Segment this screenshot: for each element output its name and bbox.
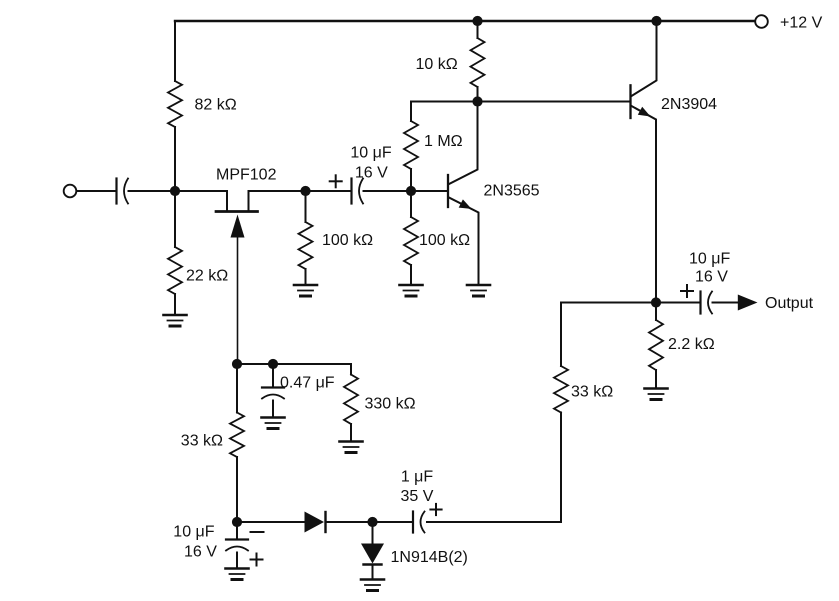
node output (emitter) xyxy=(651,297,661,307)
ground (below 0.47 uF) xyxy=(262,416,285,419)
node detector xyxy=(367,517,377,527)
wire 0.47uF node to R 330k xyxy=(273,363,351,365)
jfet MPF102 drain leg xyxy=(226,191,228,210)
wire rail down-left to R 82k xyxy=(174,21,176,81)
ground (below 10 uF AGC) xyxy=(226,567,249,570)
resistor 33 k&#937; (AGC) xyxy=(230,413,244,458)
plus sign (C 10uF coupling) xyxy=(330,180,342,182)
svg-text:10 kΩ: 10 kΩ xyxy=(416,56,458,73)
+12 V terminal xyxy=(755,15,768,28)
wire D2 to ground xyxy=(372,566,374,580)
ground (below source 100 k) xyxy=(294,284,317,287)
transistor 2N3565 collector xyxy=(449,102,478,185)
svg-text:1 μF: 1 μF xyxy=(401,468,434,485)
wire source node to C 10uF xyxy=(306,190,351,192)
wire bottom row C 1uF to feedback col xyxy=(427,521,561,523)
wire +12V supply rail xyxy=(175,20,755,22)
wire R 22k to ground xyxy=(174,294,176,315)
wire feedback col down to R 33k xyxy=(560,303,562,367)
ground (below 22 k) xyxy=(164,314,187,317)
svg-text:35 V: 35 V xyxy=(401,488,434,505)
transistor 2N3565 bar xyxy=(447,175,449,207)
capacitor 0.47 uF xyxy=(262,386,284,388)
wire R 2.2k to ground xyxy=(655,370,657,389)
svg-text:16 V: 16 V xyxy=(184,543,217,560)
resistor 33 k&#937; (feedback) xyxy=(554,366,568,413)
ground (below D2) xyxy=(361,578,384,581)
wire source node to R 100k xyxy=(305,191,307,222)
transistor 2N3565 emitter arrow xyxy=(459,199,472,209)
output arrow xyxy=(738,295,758,311)
transistor 2N3904 emitter arrow xyxy=(638,107,651,117)
wire input node to R 22k xyxy=(174,191,176,247)
transistor 2N3904 collector xyxy=(632,21,657,96)
wire R 100k base to ground xyxy=(410,265,412,285)
wire gate stem down to AGC node xyxy=(237,238,239,364)
svg-text:Output: Output xyxy=(765,295,814,312)
capacitor 10 uF 16 V (interstage) xyxy=(350,179,352,204)
svg-text:MPF102: MPF102 xyxy=(216,167,277,184)
diode D1 1N914B (series) xyxy=(305,512,325,533)
wire output node to feedback col xyxy=(561,302,656,304)
node 0.47 uF xyxy=(268,359,278,369)
svg-text:22 kΩ: 22 kΩ xyxy=(186,268,228,285)
wire 0.47uF node down xyxy=(272,364,274,387)
wire bottom node to C 10uF xyxy=(236,522,238,539)
svg-text:33 kΩ: 33 kΩ xyxy=(571,384,613,401)
svg-text:100 kΩ: 100 kΩ xyxy=(419,232,470,249)
ground (2N3565 emitter) xyxy=(467,284,490,287)
wire C 10uF to base node xyxy=(364,190,412,192)
jfet MPF102 source leg xyxy=(248,191,250,210)
wire collector node to 2N3904 base xyxy=(478,101,631,103)
ground (below 330 k) xyxy=(340,440,363,443)
resistor 1 M&#937; xyxy=(404,121,418,169)
wire R 82k to input node xyxy=(174,127,176,191)
wire base node up to R 1M xyxy=(410,169,412,191)
resistor 22 k&#937; xyxy=(168,247,182,294)
svg-text:16 V: 16 V xyxy=(695,269,728,286)
transistor 2N3904 bar xyxy=(629,85,631,118)
plus sign (C-out) xyxy=(681,290,693,292)
resistor 10 k&#937; xyxy=(471,38,485,87)
node JFET source xyxy=(300,186,310,196)
wire input node to JFET drain xyxy=(175,190,227,192)
wire R 33k feedback down to bottom row xyxy=(560,413,562,523)
node 2N3565 base xyxy=(406,186,416,196)
wire AGC node to 0.47uF node xyxy=(237,363,273,365)
resistor 100 k&#937; (base) xyxy=(404,217,418,265)
minus sign (C 10uF bottom) xyxy=(251,531,264,533)
svg-text:2N3904: 2N3904 xyxy=(661,96,717,113)
node bottom-left (10 uF) xyxy=(232,517,242,527)
wire JFET source to source node xyxy=(249,190,306,192)
wire input terminal to C-in xyxy=(77,190,117,192)
transistor 2N3565 emitter xyxy=(449,198,479,286)
wire R 33k AGC to bottom node xyxy=(236,457,238,522)
ground (below base 100 k) xyxy=(400,284,423,287)
resistor 330 k&#937; xyxy=(344,375,358,425)
resistor 100 k&#937; (source) xyxy=(299,222,313,269)
node rail / 10k xyxy=(472,16,482,26)
wire D1 to detector node xyxy=(327,521,373,523)
wire R 10k to collector node xyxy=(477,87,479,102)
wire rail node to R 10k xyxy=(477,21,479,38)
svg-text:330 kΩ: 330 kΩ xyxy=(365,396,416,413)
transistor 2N3904 emitter xyxy=(632,106,657,303)
jfet MPF102 channel bar xyxy=(216,210,258,213)
svg-text:10 μF: 10 μF xyxy=(350,145,391,162)
svg-text:10 μF: 10 μF xyxy=(689,251,730,268)
wire output node to C-out xyxy=(656,302,700,304)
wire C 0.47uF to ground xyxy=(272,401,274,418)
wire detector node to D2 xyxy=(372,522,374,544)
svg-text:2.2 kΩ: 2.2 kΩ xyxy=(668,336,715,353)
svg-text:10 μF: 10 μF xyxy=(173,524,214,541)
svg-text:0.47 μF: 0.47 μF xyxy=(280,375,335,392)
capacitor 10 uF 16 V (output) xyxy=(699,292,701,314)
wire C 10uF to ground xyxy=(236,553,238,569)
wire bottom node to D1 xyxy=(237,521,304,523)
svg-text:+12 V: +12 V xyxy=(780,14,823,31)
svg-text:1N914B(2): 1N914B(2) xyxy=(391,549,468,566)
wire C-out to output arrow xyxy=(713,302,741,304)
capacitor 10 uF 16 V (AGC filter) xyxy=(226,538,248,540)
resistor 82 k&#937; xyxy=(168,81,182,127)
wire AGC node to R 33k left xyxy=(236,364,238,413)
diode D2 1N914B (shunt) xyxy=(361,544,384,564)
wire output node to R 2.2k xyxy=(655,303,657,321)
wire R 100k source to ground xyxy=(305,269,307,285)
svg-text:2N3565: 2N3565 xyxy=(484,183,540,200)
plus sign (C 1uF) xyxy=(430,509,441,511)
capacitor 1 uF 35 V xyxy=(412,512,414,533)
capacitor C-in (input coupling) xyxy=(115,179,117,204)
svg-text:100 kΩ: 100 kΩ xyxy=(322,232,373,249)
ground (below 2.2 k) xyxy=(645,387,668,390)
node input (gate bias divider) xyxy=(170,186,180,196)
svg-text:1 MΩ: 1 MΩ xyxy=(424,133,463,150)
wire R 1M to collector node xyxy=(410,102,412,122)
node rail / 2N3904 collector xyxy=(651,16,661,26)
svg-text:33 kΩ: 33 kΩ xyxy=(181,433,223,450)
svg-text:16 V: 16 V xyxy=(355,165,388,182)
jfet MPF102 gate arrow xyxy=(231,215,245,238)
wire R 330k to ground xyxy=(350,424,352,442)
wire C-in to input node xyxy=(129,190,176,192)
transistor 2N3565 base wire xyxy=(411,190,447,192)
input terminal xyxy=(64,185,77,198)
wire detector node to C 1uF xyxy=(373,521,413,523)
wire base node to R 100k base xyxy=(410,191,412,217)
node 2N3565 collector xyxy=(472,96,482,106)
plus sign (C 10uF bottom) xyxy=(251,559,263,561)
node AGC (gate) xyxy=(232,359,242,369)
svg-text:82 kΩ: 82 kΩ xyxy=(195,97,237,114)
resistor 2.2 k&#937; xyxy=(649,320,663,370)
